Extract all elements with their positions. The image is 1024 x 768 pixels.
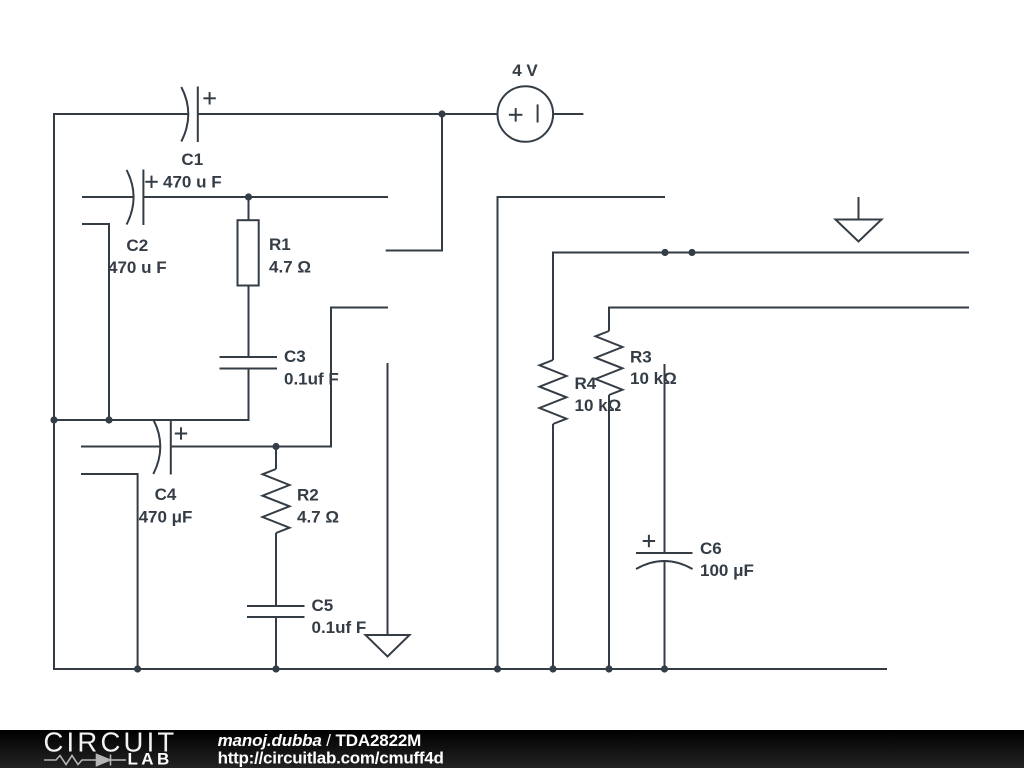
wire C3 bottom to left wire	[54, 369, 249, 421]
svg-text:10 kΩ: 10 kΩ	[575, 396, 622, 415]
svg-text:LAB: LAB	[128, 750, 173, 768]
svg-text:100 μF: 100 μF	[700, 561, 754, 580]
resistor R3	[596, 331, 677, 669]
resistor R1	[238, 197, 312, 357]
ground middle wire	[387, 363, 389, 635]
wire C2 right	[143, 196, 388, 198]
node junction above R1	[245, 193, 252, 200]
node dot b	[688, 249, 695, 256]
svg-text:C3: C3	[284, 347, 306, 366]
wire source right stub	[553, 113, 583, 115]
node dot left	[50, 416, 57, 423]
wire C4 left	[81, 446, 160, 448]
logo resistor-diode symbol	[44, 755, 126, 766]
svg-text:4 V: 4 V	[512, 61, 538, 80]
capacitor C4	[139, 419, 193, 527]
node junction bottom wire 2	[272, 665, 279, 672]
node junction bottom wire 3	[494, 665, 501, 672]
wire C4 right up and over	[171, 308, 388, 447]
wire right vertical with top	[498, 197, 666, 669]
capacitor C3	[220, 347, 339, 388]
svg-text:manoj.dubba / TDA2822M: manoj.dubba / TDA2822M	[218, 731, 422, 750]
node dot a	[661, 249, 668, 256]
svg-text:R2: R2	[297, 486, 319, 505]
capacitor C1	[163, 87, 222, 192]
resistor R2	[263, 447, 340, 607]
wire L bottom-left	[81, 474, 138, 669]
capacitor C2	[108, 170, 167, 278]
node dot mid	[105, 416, 112, 423]
wire stub L left	[82, 224, 109, 420]
node junction bottom wire 4	[549, 665, 556, 672]
node junction above R2	[272, 443, 279, 450]
svg-text:C1: C1	[181, 150, 203, 169]
wire L from top junction down-left	[386, 114, 442, 251]
wire C1 right to source	[198, 113, 498, 115]
svg-text:C5: C5	[312, 596, 334, 615]
svg-text:C2: C2	[126, 236, 148, 255]
capacitor C6	[636, 364, 754, 669]
node junction bottom wire 1	[134, 665, 141, 672]
svg-text:10 kΩ: 10 kΩ	[630, 369, 677, 388]
svg-text:R1: R1	[269, 235, 291, 254]
svg-text:http://circuitlab.com/cmuff4d: http://circuitlab.com/cmuff4d	[218, 749, 444, 768]
voltage source V1	[498, 61, 554, 142]
node junction at top wire	[438, 110, 445, 117]
capacitor C5	[247, 596, 366, 669]
resistor R4	[540, 360, 622, 669]
svg-text:470 μF: 470 μF	[139, 508, 193, 527]
svg-text:4.7 Ω: 4.7 Ω	[269, 258, 311, 277]
wire supply net horizontal	[553, 253, 969, 361]
wire left vertical + top wire + bottom wire	[54, 114, 887, 669]
svg-text:0.1uf F: 0.1uf F	[312, 618, 367, 637]
svg-text:470 u F: 470 u F	[163, 173, 222, 192]
svg-text:470 u F: 470 u F	[108, 258, 167, 277]
ground top right	[836, 197, 882, 242]
node junction bottom wire 6	[661, 665, 668, 672]
svg-text:4.7 Ω: 4.7 Ω	[297, 508, 339, 527]
svg-text:R4: R4	[575, 374, 597, 393]
svg-text:C4: C4	[155, 485, 177, 504]
wire C2 left	[82, 196, 134, 198]
svg-text:R3: R3	[630, 347, 652, 366]
ground middle	[366, 635, 410, 657]
footer bar	[0, 730, 1024, 768]
svg-text:C6: C6	[700, 539, 722, 558]
wire mid net horizontal	[609, 308, 969, 332]
node junction bottom wire 5	[605, 665, 612, 672]
